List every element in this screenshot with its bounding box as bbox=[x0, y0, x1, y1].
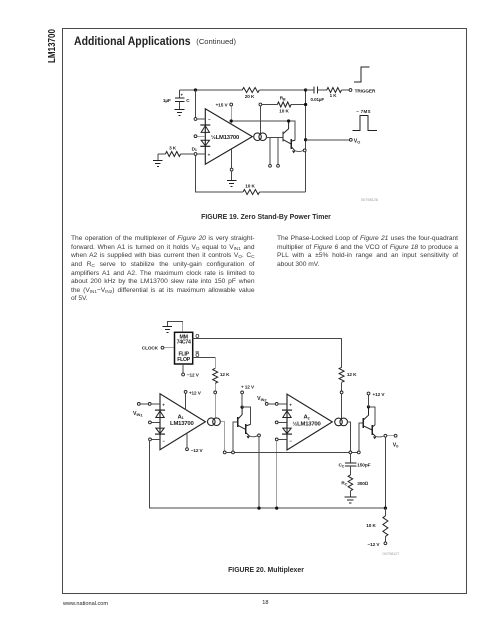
ground below C bbox=[175, 109, 185, 115]
svg-text:10 K: 10 K bbox=[366, 523, 376, 528]
wire bias pin down to output node bbox=[259, 106, 261, 133]
ground above flip-flop bbox=[163, 321, 183, 332]
linearizing diode lower D1 bbox=[192, 140, 211, 152]
terminal VO fig20 bbox=[393, 434, 399, 448]
pin A2 inverting input bbox=[275, 438, 287, 441]
body text left column bbox=[71, 235, 255, 303]
output symbol A2 bbox=[335, 418, 348, 426]
pin A2 non-inverting input bbox=[275, 403, 287, 406]
diode A1 upper bbox=[155, 410, 165, 417]
svg-text:150pF: 150pF bbox=[357, 463, 370, 468]
svg-text:−: − bbox=[208, 117, 211, 122]
pin buffer input 2 bbox=[277, 138, 280, 168]
svg-text:1 K: 1 K bbox=[330, 93, 338, 98]
pin Q5 base bbox=[357, 423, 363, 454]
op-amp A1 LM13700 bbox=[160, 394, 205, 450]
wire VO line bbox=[306, 139, 350, 141]
terminal -12 V flip-flop bbox=[182, 364, 200, 378]
pin A2 diode bias bbox=[275, 421, 286, 424]
wire A1 output down to rail bbox=[220, 422, 225, 451]
node rail A2 feedback bbox=[275, 506, 278, 509]
svg-text:+: + bbox=[289, 403, 292, 408]
svg-text:~ 7MS: ~ 7MS bbox=[356, 109, 371, 114]
wire Q to A2 bias bbox=[193, 339, 342, 368]
terminal VIN1 bbox=[133, 403, 148, 418]
output symbol U1 bbox=[254, 133, 267, 141]
capacitor CC 150pF bbox=[339, 454, 371, 475]
svg-text:½LM13700: ½LM13700 bbox=[211, 134, 240, 141]
svg-text:FLOP: FLOP bbox=[177, 357, 191, 363]
FIGURE 20 schematic bbox=[108, 312, 470, 560]
ground below op-amp bbox=[227, 171, 237, 187]
svg-text:VO: VO bbox=[354, 139, 361, 145]
pin diode bias bbox=[194, 135, 205, 138]
svg-text:TRIGGER: TRIGGER bbox=[355, 88, 376, 93]
label 7ms pulse width bbox=[356, 109, 371, 114]
wire +15V to bias and darlington collector bbox=[230, 106, 295, 140]
pin Q6 emitter bbox=[384, 434, 394, 437]
resistor 20 K bbox=[242, 88, 259, 99]
svg-text:LM13700: LM13700 bbox=[170, 421, 194, 427]
resistor 10 K pulldown bbox=[366, 508, 388, 542]
pin ground below op-amp bbox=[230, 149, 233, 171]
wire VO down to rail bbox=[384, 437, 386, 508]
terminal TRIGGER bbox=[349, 88, 376, 93]
terminal +12 V A1 bbox=[184, 390, 202, 410]
footer bbox=[63, 601, 108, 607]
diode A1 lower bbox=[155, 428, 165, 434]
svg-text:VIN1: VIN1 bbox=[133, 411, 143, 417]
output symbol A1 bbox=[208, 418, 221, 426]
page border frame bbox=[62, 28, 467, 594]
node VO takeoff bbox=[304, 138, 307, 141]
svg-text:C: C bbox=[186, 98, 190, 103]
svg-text:V0: V0 bbox=[393, 442, 399, 448]
pin non-inverting input bbox=[194, 153, 205, 156]
ground at 3K input bbox=[153, 154, 163, 167]
caption figure 20 bbox=[116, 567, 416, 574]
resistor RB 10 K bbox=[262, 96, 306, 114]
svg-text:−: − bbox=[289, 439, 292, 444]
figure 19 small doc code bbox=[361, 198, 378, 202]
wire feedback bottom rail bbox=[196, 155, 306, 192]
pin A2 output bbox=[349, 451, 352, 454]
transistor Q2 darlington bbox=[291, 139, 303, 154]
pin Q3 base bbox=[232, 422, 238, 454]
wire right vertical node bbox=[305, 90, 307, 192]
wire Q4 emitter to bottom rail bbox=[258, 437, 260, 508]
resistor 12 K left bbox=[213, 368, 230, 391]
svg-text:+: + bbox=[162, 402, 165, 407]
wire A2 feedback down bbox=[276, 441, 278, 508]
caption figure 19 bbox=[116, 214, 416, 221]
node rail Q4 bbox=[257, 506, 260, 509]
svg-text:+: + bbox=[181, 92, 184, 97]
svg-text:1µF: 1µF bbox=[163, 98, 171, 103]
svg-text:12 K: 12 K bbox=[220, 372, 230, 377]
figure 20 small doc code bbox=[383, 552, 400, 556]
linearizing diode upper bbox=[200, 125, 210, 132]
svg-text:20 K: 20 K bbox=[245, 94, 255, 99]
resistor 12 K right bbox=[339, 367, 357, 391]
wire mid rail bbox=[226, 451, 357, 453]
pin A1 non-inverting input bbox=[148, 403, 160, 406]
svg-text:CC: CC bbox=[339, 463, 345, 469]
capacitor 0.01uF bbox=[306, 87, 325, 102]
node RB right bbox=[304, 103, 307, 106]
heading bbox=[74, 34, 205, 48]
svg-text:RB: RB bbox=[280, 96, 286, 102]
svg-text:−12 V: −12 V bbox=[368, 542, 381, 547]
pin amp bias input bbox=[259, 103, 262, 106]
label Qbar bbox=[195, 352, 199, 359]
svg-text:−12 V: −12 V bbox=[187, 373, 200, 378]
svg-text:CLOCK: CLOCK bbox=[142, 346, 159, 351]
pin A1 output bbox=[223, 451, 226, 454]
node trigger top bbox=[304, 88, 307, 91]
svg-text:0.01µF: 0.01µF bbox=[311, 97, 325, 102]
transistor Q5 bbox=[363, 407, 372, 430]
resistor RC 300 ohm bbox=[341, 475, 368, 497]
resistor 3 K bbox=[158, 145, 194, 156]
pin buffer output bbox=[303, 149, 306, 152]
svg-text:3 K: 3 K bbox=[169, 145, 177, 150]
terminal CLOCK bbox=[142, 346, 175, 351]
pin A1 bias bbox=[214, 391, 217, 418]
transistor Q1 darlington bbox=[283, 121, 291, 144]
FIGURE 19 schematic bbox=[138, 56, 440, 206]
wire Qbar to A1 bias bbox=[193, 357, 216, 368]
svg-text:12 K: 12 K bbox=[347, 372, 357, 377]
svg-text:D1: D1 bbox=[192, 146, 197, 152]
wire Q3 collector to Q4 bbox=[242, 407, 250, 424]
node rail VO bbox=[384, 506, 387, 509]
terminal +12 V Q3 bbox=[240, 385, 255, 409]
svg-text:Q: Q bbox=[195, 353, 199, 359]
wire A2 output down to CC bbox=[347, 422, 350, 451]
resistor 10 K feedback bbox=[243, 183, 260, 194]
terminal +12 V Q5 bbox=[367, 392, 386, 408]
terminal +15 V bbox=[216, 103, 233, 108]
wire Q5 collector to Q6 bbox=[369, 407, 375, 425]
node Q1 collector junction bbox=[287, 119, 290, 122]
terminal -12 V pulldown bbox=[368, 542, 387, 547]
svg-text:A2: A2 bbox=[304, 415, 310, 421]
svg-text:+ 12 V: + 12 V bbox=[241, 385, 255, 390]
svg-text:10 K: 10 K bbox=[245, 183, 255, 188]
wire output to darlington base bbox=[266, 137, 283, 139]
label Q bbox=[195, 334, 199, 340]
diode A2 upper bbox=[282, 410, 292, 417]
svg-text:−: − bbox=[162, 438, 165, 443]
pin Q4 emitter bbox=[258, 434, 261, 437]
svg-text:74C74: 74C74 bbox=[177, 340, 191, 346]
body text right column bbox=[277, 235, 458, 269]
svg-text:+12 V: +12 V bbox=[189, 390, 202, 395]
svg-text:½LM13700: ½LM13700 bbox=[292, 420, 321, 427]
node top-left junction bbox=[194, 88, 197, 91]
wire to inverting input bbox=[195, 90, 197, 118]
pin buffer input 1 bbox=[269, 138, 272, 168]
svg-text:+: + bbox=[208, 153, 211, 158]
terminal VIN2 bbox=[257, 396, 275, 405]
svg-text:300Ω: 300Ω bbox=[357, 481, 369, 486]
trigger step waveform bbox=[354, 67, 370, 82]
pin A1 inverting input bbox=[149, 438, 160, 441]
wire bottom rail bbox=[150, 441, 386, 508]
sidebar part number LM13700 (rotated) bbox=[47, 29, 58, 63]
svg-text:−12 V: −12 V bbox=[191, 448, 204, 453]
pin A1 diode bias bbox=[149, 421, 160, 424]
capacitor C 1uF bbox=[163, 90, 190, 109]
svg-text:A1: A1 bbox=[178, 414, 184, 420]
terminal VO bbox=[349, 138, 360, 144]
resistor 1 K bbox=[317, 88, 349, 99]
wire top rail bbox=[180, 89, 306, 91]
terminal -12 V A1 bbox=[186, 433, 204, 453]
flip-flop U2 MM74C74 bbox=[175, 332, 193, 364]
op-amp U1 1/2 LM13700 bbox=[205, 109, 252, 165]
transistor Q6 bbox=[372, 425, 384, 439]
svg-text:10 K: 10 K bbox=[279, 108, 289, 113]
transistor Q4 bbox=[246, 424, 258, 439]
svg-text:+12 V: +12 V bbox=[373, 392, 386, 397]
output pulse waveform bbox=[353, 116, 378, 131]
op-amp A2 1/2 LM13700 bbox=[287, 394, 332, 450]
ground below RC bbox=[344, 497, 356, 503]
transistor Q3 bbox=[238, 407, 246, 429]
svg-text:+15 V: +15 V bbox=[216, 103, 229, 108]
pin inverting input bbox=[194, 118, 205, 121]
svg-text:VIN2: VIN2 bbox=[257, 396, 267, 402]
svg-text:RC: RC bbox=[341, 481, 347, 487]
pin A2 bias bbox=[340, 391, 343, 418]
diode A2 lower bbox=[282, 428, 292, 434]
